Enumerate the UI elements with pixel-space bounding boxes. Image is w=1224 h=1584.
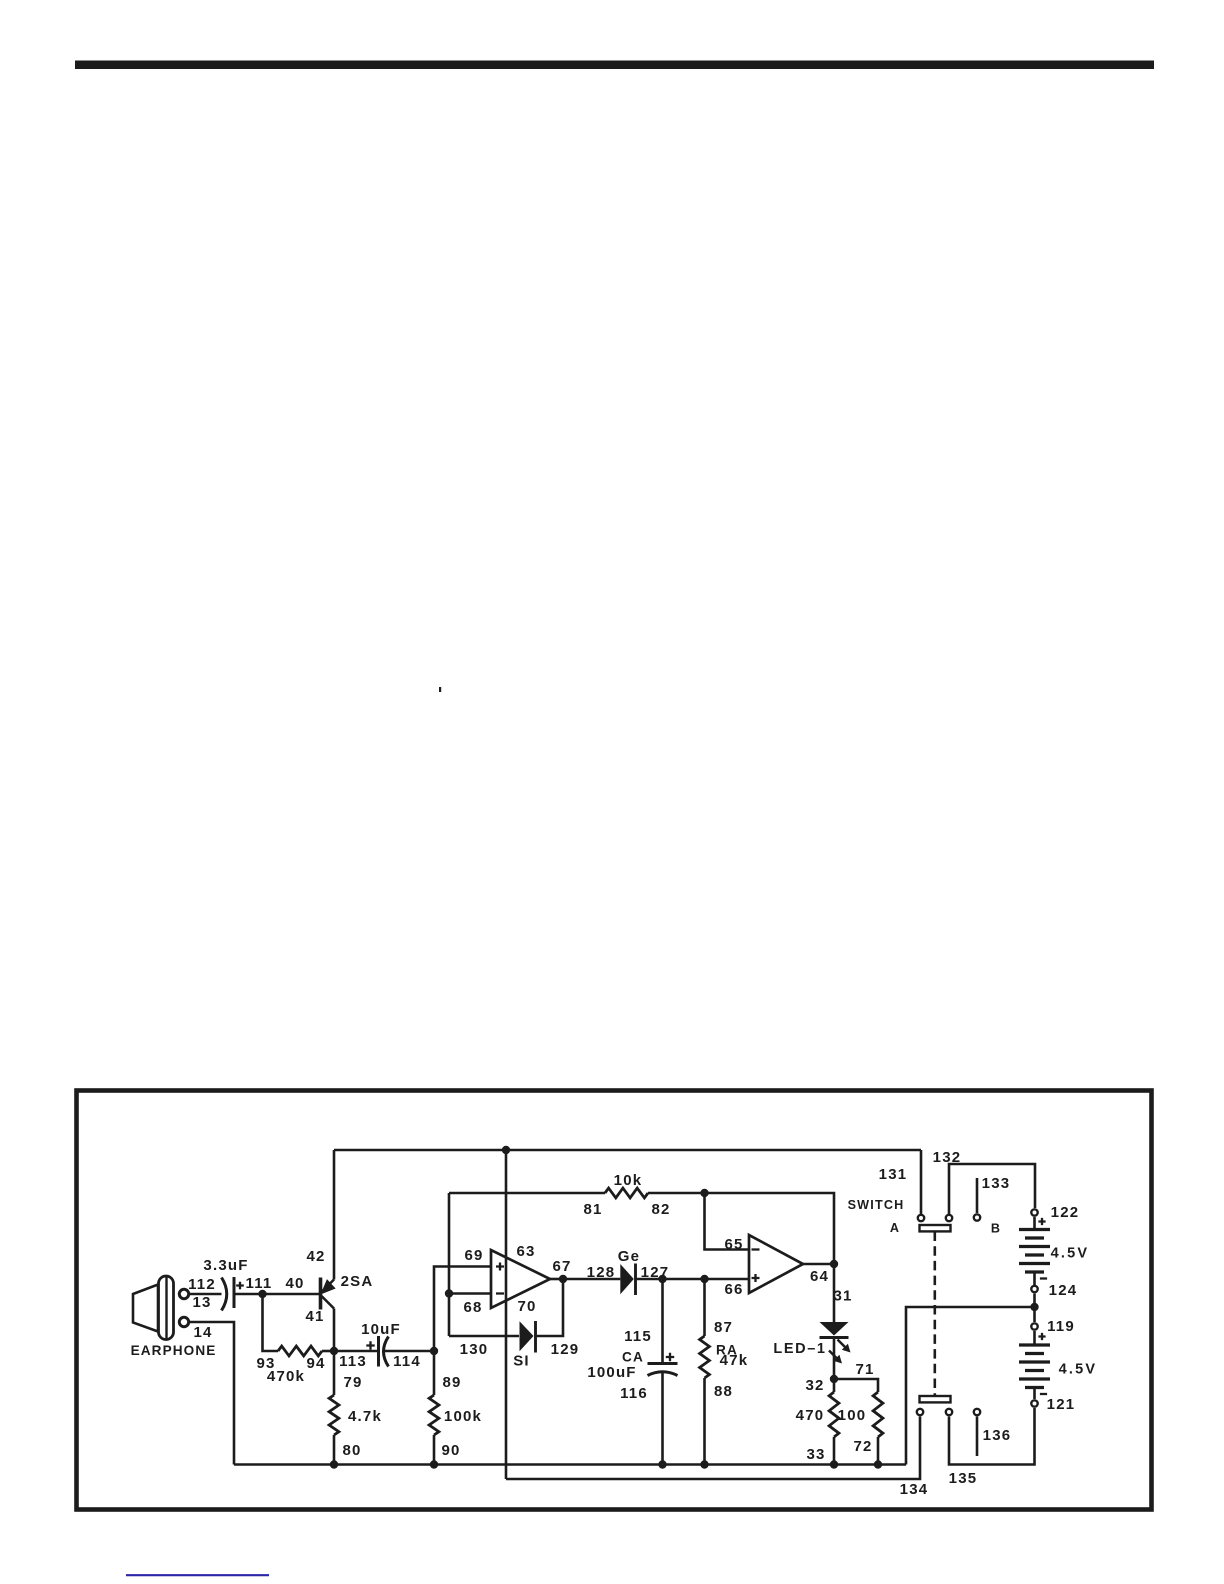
- svg-text:10uF: 10uF: [361, 1321, 401, 1338]
- battery B1 terminal 122 circle: [1031, 1209, 1037, 1215]
- node 115 junction dot: [658, 1275, 666, 1283]
- svg-text:470k: 470k: [267, 1368, 305, 1385]
- svg-text:115: 115: [624, 1328, 652, 1345]
- capacitor CA curved plate: [648, 1372, 678, 1376]
- capacitor 10uF plus sign: [366, 1341, 374, 1349]
- terminal 133 stub wire: [976, 1178, 979, 1213]
- rail A junction dot at 72: [874, 1460, 882, 1468]
- svg-text:67: 67: [552, 1258, 571, 1275]
- svg-text:128: 128: [587, 1264, 616, 1281]
- svg-text:116: 116: [620, 1385, 648, 1402]
- svg-text:13: 13: [192, 1294, 211, 1311]
- svg-text:133: 133: [982, 1175, 1011, 1192]
- wire node 87 to U2 plus input: [705, 1278, 750, 1281]
- wire R 470k to node 113: [322, 1350, 334, 1353]
- battery tap junction dot: [1030, 1303, 1038, 1311]
- LED-1 light arrow upper: [838, 1340, 851, 1353]
- battery B2 terminal 119 circle: [1031, 1323, 1037, 1329]
- svg-text:113: 113: [339, 1353, 367, 1370]
- resistor 4.7k (79-80): [329, 1395, 339, 1435]
- wire RA to ground rail: [703, 1378, 706, 1465]
- earphone capsule inner line: [165, 1277, 167, 1339]
- wire switch A to battery top: [949, 1164, 1035, 1214]
- switch A throw terminal 132: [946, 1215, 952, 1221]
- wire earphone-14 to rail: [190, 1322, 235, 1465]
- capacitor 10uF curved plate: [384, 1337, 389, 1367]
- rail A junction dot at 90: [430, 1460, 438, 1468]
- LED-1 bar: [820, 1336, 849, 1339]
- resistor 470k (93-94): [278, 1346, 322, 1356]
- wire CA to ground rail: [661, 1372, 664, 1465]
- svg-text:4.5V: 4.5V: [1059, 1362, 1098, 1378]
- svg-text:63: 63: [516, 1243, 535, 1260]
- LED-1 light arrow lower: [829, 1351, 842, 1364]
- svg-text:134: 134: [900, 1481, 929, 1498]
- wire rail A up to battery tap: [906, 1307, 1035, 1465]
- diode Ge triangle: [620, 1264, 634, 1294]
- wire node 67 to diode Ge: [563, 1278, 620, 1281]
- svg-text:100uF: 100uF: [587, 1364, 636, 1381]
- svg-text:132: 132: [933, 1149, 962, 1166]
- node 67 junction dot: [559, 1275, 567, 1283]
- wire earphone-13 to C 3.3uF: [190, 1293, 222, 1296]
- earphone capsule: [159, 1276, 174, 1340]
- blue hyperlink underline: [126, 1574, 269, 1576]
- svg-text:4.7k: 4.7k: [348, 1408, 382, 1425]
- svg-text:87: 87: [714, 1319, 733, 1336]
- svg-text:SI: SI: [513, 1353, 530, 1370]
- svg-text:111: 111: [246, 1275, 273, 1292]
- earphone horn: [133, 1285, 158, 1332]
- wire U1 output to node 67: [550, 1278, 563, 1281]
- LED-1 triangle: [820, 1322, 849, 1336]
- svg-text:EARPHONE: EARPHONE: [131, 1343, 217, 1358]
- wire terminal 119 to battery B2: [1033, 1331, 1036, 1345]
- wire feedback row left: [449, 1192, 605, 1195]
- battery B1 plus sign: [1038, 1218, 1045, 1225]
- wire terminal 122 to battery B1: [1033, 1217, 1036, 1230]
- svg-text:SWITCH: SWITCH: [848, 1198, 905, 1212]
- battery B1 terminal 124 circle: [1031, 1286, 1037, 1292]
- diode SI triangle: [520, 1321, 534, 1351]
- svg-text:4.5V: 4.5V: [1051, 1246, 1090, 1262]
- svg-text:3.3uF: 3.3uF: [203, 1257, 248, 1274]
- terminal 136 stub wire: [976, 1417, 979, 1457]
- return rail B: [506, 1417, 920, 1480]
- resistor 100k (89-90): [429, 1395, 439, 1435]
- wire LED to node 32: [833, 1338, 836, 1380]
- op-amp U2 minus sign: [752, 1248, 760, 1250]
- svg-text:B: B: [991, 1222, 1001, 1236]
- wire node 114 down to R 100k: [433, 1351, 436, 1395]
- svg-text:70: 70: [517, 1298, 536, 1315]
- wire node 64 down to LED: [833, 1264, 836, 1322]
- svg-text:CA: CA: [622, 1350, 644, 1365]
- svg-text:A: A: [890, 1221, 900, 1235]
- wire node 82 down to minus input: [705, 1193, 750, 1250]
- svg-text:33: 33: [806, 1446, 825, 1463]
- wire feedback row to U2 output: [705, 1193, 835, 1264]
- battery B2 minus sign: [1040, 1393, 1047, 1395]
- svg-text:31: 31: [833, 1288, 852, 1305]
- op-amp U1 minus sign: [496, 1292, 504, 1294]
- wire R 470 to ground rail: [833, 1437, 836, 1465]
- svg-text:130: 130: [460, 1341, 489, 1358]
- switch B button bar: [920, 1396, 951, 1402]
- vertical bus wire x=506: [505, 1150, 508, 1479]
- svg-text:Ge: Ge: [618, 1248, 640, 1265]
- wire to diode SI: [449, 1335, 519, 1338]
- svg-text:LED–1: LED–1: [773, 1341, 826, 1357]
- svg-text:71: 71: [855, 1361, 874, 1378]
- svg-text:72: 72: [853, 1438, 872, 1455]
- capacitor CA bar plate: [648, 1362, 678, 1365]
- rail A junction dot at 116: [658, 1460, 666, 1468]
- svg-text:88: 88: [714, 1383, 733, 1400]
- wire R 10k to node 82: [648, 1192, 705, 1195]
- wire R 100k to ground rail: [433, 1435, 436, 1465]
- wire U2 output to node 64: [803, 1263, 834, 1266]
- rail A junction dot at 33: [830, 1460, 838, 1468]
- svg-text:81: 81: [583, 1201, 602, 1218]
- resistor 10k (81-82): [605, 1188, 648, 1198]
- wire terminal 124 to tap: [1033, 1294, 1036, 1323]
- wire top rail to switch A pole: [920, 1150, 923, 1214]
- wire node 115 to node 87: [663, 1278, 705, 1281]
- svg-text:42: 42: [306, 1248, 325, 1265]
- svg-text:68: 68: [463, 1299, 482, 1316]
- wire diode Ge to node 115: [636, 1278, 663, 1281]
- feedback wire minus input: [448, 1193, 451, 1336]
- svg-text:135: 135: [949, 1470, 978, 1487]
- rail A junction dot at 88: [700, 1460, 708, 1468]
- wire node 113 to C 10uF: [334, 1350, 378, 1353]
- node 113 junction dot: [330, 1347, 338, 1355]
- node 87 junction dot: [700, 1275, 708, 1283]
- capacitor 10uF bar plate: [377, 1336, 380, 1367]
- node 82 junction dot: [700, 1189, 708, 1197]
- resistor 470 (32-33): [829, 1392, 839, 1437]
- wire node 114 up to plus input: [434, 1267, 491, 1352]
- svg-text:80: 80: [342, 1442, 361, 1459]
- wire battery B1 to terminal 124: [1033, 1272, 1036, 1285]
- svg-text:136: 136: [983, 1427, 1012, 1444]
- transistor 2SA emitter arrow: [322, 1280, 335, 1294]
- svg-text:112: 112: [188, 1276, 216, 1293]
- node on top rail junction dot: [502, 1146, 510, 1154]
- schematic border frame: [77, 1091, 1152, 1510]
- svg-text:79: 79: [343, 1374, 362, 1391]
- svg-text:64: 64: [810, 1268, 829, 1285]
- svg-text:40: 40: [285, 1275, 304, 1292]
- svg-text:14: 14: [193, 1324, 212, 1341]
- svg-text:122: 122: [1051, 1204, 1080, 1221]
- node 64 junction dot: [830, 1260, 838, 1268]
- wire node 111 down to R 470k: [263, 1294, 279, 1351]
- earphone terminal 14 circle: [179, 1317, 188, 1326]
- wire diode SI to output: [536, 1279, 564, 1336]
- svg-text:82: 82: [651, 1201, 670, 1218]
- svg-text:2SA: 2SA: [341, 1273, 374, 1290]
- svg-text:32: 32: [805, 1377, 824, 1394]
- battery B1 cell plates: [1019, 1230, 1050, 1273]
- wire node 87 down to RA: [703, 1279, 706, 1336]
- svg-text:100k: 100k: [444, 1408, 482, 1425]
- svg-text:124: 124: [1049, 1282, 1078, 1299]
- svg-text:129: 129: [551, 1341, 580, 1358]
- svg-text:131: 131: [879, 1166, 908, 1183]
- switch A pole terminal 131: [918, 1215, 924, 1221]
- battery B2 terminal 121 circle: [1031, 1400, 1037, 1406]
- rail A junction dot at 80: [330, 1460, 338, 1468]
- wire collector 42 up to top rail: [333, 1150, 336, 1280]
- svg-text:90: 90: [441, 1442, 460, 1459]
- svg-text:100: 100: [838, 1407, 867, 1424]
- transistor 2SA emitter diagonal: [322, 1296, 335, 1309]
- resistor 100 (71-72): [873, 1392, 883, 1437]
- capacitor 3.3uF plus sign: [236, 1282, 244, 1290]
- terminal 133 circle: [974, 1214, 980, 1220]
- resistor RA 47k (87-88): [700, 1336, 710, 1378]
- switch A link dashed line: [933, 1232, 936, 1397]
- battery B2 plus sign: [1038, 1333, 1045, 1340]
- transistor 2SA collector diagonal: [322, 1280, 335, 1293]
- wire emitter 41 down to node 113: [333, 1309, 336, 1352]
- wire C 3.3uF to node 111: [234, 1293, 263, 1296]
- svg-text:119: 119: [1047, 1318, 1075, 1335]
- top rule bar: [75, 61, 1154, 70]
- op-amp U1 plus sign: [496, 1263, 504, 1271]
- switch A button bar: [920, 1225, 951, 1231]
- svg-text:94: 94: [306, 1355, 325, 1372]
- common rail A: [234, 1463, 906, 1466]
- wire node to minus input: [449, 1292, 491, 1295]
- wire node 115 down to CA: [661, 1279, 664, 1363]
- node 32 junction dot: [830, 1375, 838, 1383]
- diode SI bar: [534, 1321, 537, 1353]
- svg-text:470: 470: [796, 1407, 825, 1424]
- wire R 100 to ground rail: [877, 1437, 880, 1465]
- terminal 136 circle: [974, 1409, 980, 1415]
- battery B1 minus sign: [1040, 1277, 1047, 1279]
- wire battery B2 to terminal 121: [1033, 1388, 1036, 1400]
- switch B throw terminal 135: [946, 1409, 952, 1415]
- switch B pole terminal 134: [917, 1409, 923, 1415]
- svg-text:65: 65: [724, 1236, 743, 1253]
- battery B2 cell plates: [1019, 1345, 1050, 1388]
- svg-text:114: 114: [393, 1353, 421, 1370]
- node 111 junction dot: [258, 1290, 266, 1298]
- node 114 junction dot: [430, 1347, 438, 1355]
- op-amp U2 plus sign: [752, 1274, 760, 1282]
- wire node 32 down to R 470: [833, 1379, 836, 1392]
- stray ink speck: [439, 687, 441, 692]
- wire R 4.7k to ground rail: [333, 1435, 336, 1465]
- earphone terminal 13 circle: [179, 1289, 188, 1298]
- op-amp U2 triangle: [749, 1235, 803, 1293]
- op-amp U1 triangle: [491, 1250, 550, 1308]
- svg-text:10k: 10k: [614, 1172, 643, 1189]
- transistor 2SA base bar: [319, 1278, 323, 1310]
- capacitor CA plus sign: [666, 1353, 674, 1361]
- svg-text:47k: 47k: [720, 1352, 749, 1369]
- capacitor 3.3uF curved plate: [222, 1278, 227, 1311]
- svg-text:121: 121: [1047, 1396, 1076, 1413]
- wire C 10uF to node 114: [384, 1350, 435, 1353]
- node 68 junction dot: [445, 1289, 453, 1297]
- svg-text:66: 66: [724, 1281, 743, 1298]
- svg-text:89: 89: [442, 1374, 461, 1391]
- wire terminal 121 to switch B: [949, 1408, 1035, 1465]
- wire node 32 to R 100 top: [834, 1379, 878, 1392]
- capacitor 3.3uF bar plate: [233, 1277, 236, 1308]
- diode Ge bar: [634, 1264, 637, 1296]
- svg-text:69: 69: [464, 1247, 483, 1264]
- top supply rail: [334, 1149, 921, 1152]
- wire node 111 to base: [263, 1293, 321, 1296]
- svg-text:41: 41: [305, 1308, 324, 1325]
- wire node 113 down to R 4.7k: [333, 1351, 336, 1395]
